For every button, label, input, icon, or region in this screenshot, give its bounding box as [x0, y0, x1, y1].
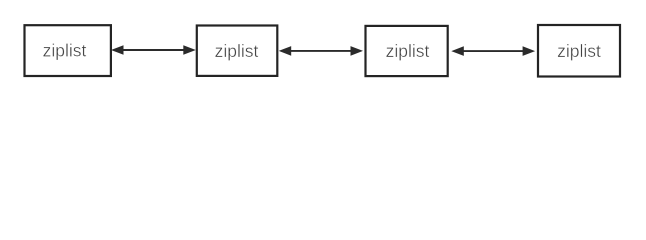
- label ziplist 4: [557, 41, 601, 61]
- arrow box3-box4 (double-headed): [451, 46, 535, 56]
- label ziplist 1: [43, 41, 87, 61]
- svg-text:ziplist: ziplist: [386, 41, 430, 61]
- arrow box1-box2 (double-headed): [111, 45, 196, 55]
- box ziplist 1: [25, 25, 111, 76]
- svg-text:ziplist: ziplist: [43, 41, 87, 61]
- arrow box2-box3 (double-headed): [279, 46, 363, 56]
- svg-text:ziplist: ziplist: [215, 41, 259, 61]
- box ziplist 4: [538, 25, 620, 77]
- svg-text:ziplist: ziplist: [557, 41, 601, 61]
- box ziplist 3: [366, 26, 448, 76]
- box ziplist 2: [197, 26, 277, 76]
- label ziplist 3: [386, 41, 430, 61]
- label ziplist 2: [215, 41, 259, 61]
